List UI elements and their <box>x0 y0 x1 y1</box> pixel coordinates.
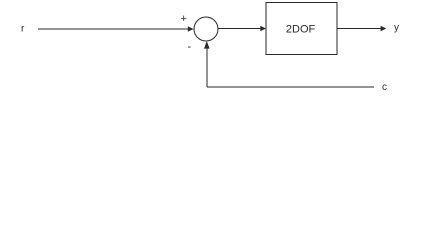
arrowhead into summer bottom <box>204 41 210 49</box>
feedback horizontal wire <box>207 86 374 88</box>
svg-text:c: c <box>382 82 387 93</box>
wire summer to block <box>218 28 261 30</box>
svg-text:r: r <box>21 24 25 35</box>
feedback vertical wire <box>206 48 208 87</box>
arrowhead at y <box>381 26 387 32</box>
wire block to y <box>337 28 381 30</box>
svg-text:+: + <box>181 13 187 25</box>
summing junction <box>194 17 218 41</box>
wire r to summer <box>38 28 189 30</box>
arrowhead into summer <box>188 26 194 32</box>
svg-text:2DOF: 2DOF <box>286 24 316 36</box>
block 2DOF <box>266 3 337 55</box>
arrowhead into block <box>260 26 266 32</box>
svg-text:y: y <box>394 22 399 33</box>
svg-text:-: - <box>188 41 192 53</box>
